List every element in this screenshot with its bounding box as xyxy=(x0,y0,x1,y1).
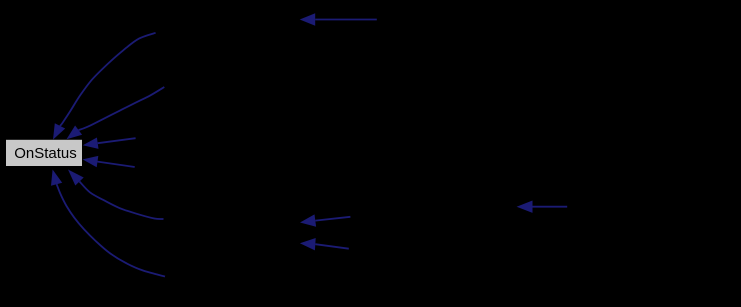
edge E2 caller2 to OnStatus wire xyxy=(79,87,165,130)
edge E3 caller3 to OnStatus wire xyxy=(98,138,136,143)
node OnStatus label xyxy=(14,145,77,162)
edge E6 caller6 to OnStatus arrowhead xyxy=(68,170,84,186)
edge H1 top caller link wire xyxy=(315,19,377,21)
edge E5 caller5 to OnStatus arrowhead xyxy=(51,170,62,186)
edge H1 top caller link arrowhead xyxy=(300,13,316,25)
edge E3 caller3 to OnStatus arrowhead xyxy=(83,138,99,149)
edge E4 caller4 to OnStatus arrowhead xyxy=(83,156,99,167)
edge E1 caller1 to OnStatus wire xyxy=(60,33,156,126)
edge H2 right caller link arrowhead xyxy=(517,201,533,213)
edge H4 mid caller link2 arrowhead xyxy=(300,238,316,250)
edge E5 caller5 to OnStatus wire xyxy=(57,184,165,276)
edge E4 caller4 to OnStatus wire xyxy=(98,162,135,167)
edge E2 caller2 to OnStatus arrowhead xyxy=(67,126,83,140)
edge E1 caller1 to OnStatus arrowhead xyxy=(53,123,65,139)
edge H2 right caller link wire xyxy=(533,206,568,208)
svg-text:OnStatus: OnStatus xyxy=(14,145,77,162)
edge H3 mid caller link arrowhead xyxy=(300,214,316,226)
edge E6 caller6 to OnStatus wire xyxy=(80,182,164,220)
edge H3 mid caller link wire xyxy=(315,217,350,221)
edge H4 mid caller link2 wire xyxy=(315,244,349,249)
node OnStatus box xyxy=(6,140,82,166)
